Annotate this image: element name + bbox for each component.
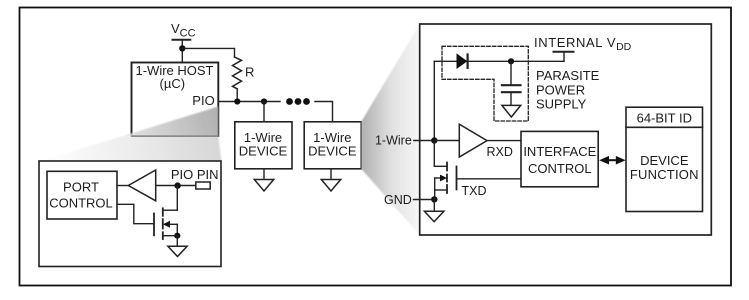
pin label PIO on host xyxy=(192,93,214,108)
device box D1 (1-Wire DEVICE) xyxy=(235,122,292,169)
zoom wedge from host box to port-control detail box xyxy=(39,107,222,162)
svg-text:1-Wire: 1-Wire xyxy=(313,130,351,145)
node junction VDD rail xyxy=(508,58,514,64)
node junction Q2 source xyxy=(174,233,180,239)
diode D3 (parasite power) xyxy=(457,54,468,68)
wire 1-Wire bus from PIO xyxy=(218,101,280,103)
node label GND xyxy=(384,193,412,207)
node junction device1 tap xyxy=(261,98,267,104)
transistor Q1 TXD pulldown xyxy=(434,141,456,200)
power symbol VCC xyxy=(171,21,196,40)
node junction resistor/bus xyxy=(234,98,240,104)
wire port control to receiver xyxy=(117,185,128,187)
op-amp buffer RXD xyxy=(459,124,487,157)
svg-text:PORT: PORT xyxy=(63,180,99,195)
wire 1-Wire to RXD buffer xyxy=(434,140,459,142)
wire bus segment to device2 xyxy=(315,102,333,122)
svg-text:INTERFACE: INTERFACE xyxy=(523,144,596,159)
value label R xyxy=(245,65,254,80)
port control block xyxy=(47,171,117,219)
host box label xyxy=(136,63,214,91)
resistor R xyxy=(233,57,242,89)
svg-text:DEVICE: DEVICE xyxy=(640,153,689,168)
pin label RXD xyxy=(487,145,513,159)
pin label TXD xyxy=(462,184,487,198)
wire VCC stub into host box xyxy=(181,40,183,62)
ground under device1 xyxy=(254,169,273,191)
transistor Q2 PIO pulldown xyxy=(154,186,177,239)
svg-text:SUPPLY: SUPPLY xyxy=(536,97,587,112)
svg-text:PIO PIN: PIO PIN xyxy=(171,167,219,182)
svg-text:RXD: RXD xyxy=(487,145,513,159)
op-amp buffer receiver (points left) xyxy=(128,170,155,201)
svg-text:1-Wire: 1-Wire xyxy=(244,130,282,145)
ground under device2 xyxy=(321,169,340,191)
wire tap down to device1 xyxy=(263,102,265,122)
wire 1-Wire vertical riser to diode xyxy=(433,61,435,140)
label PARASITE POWER SUPPLY xyxy=(536,68,600,112)
svg-text:CONTROL: CONTROL xyxy=(49,195,113,210)
svg-text:POWER: POWER xyxy=(536,82,585,97)
host box bottom edge under wedge xyxy=(132,135,218,137)
host box U1 (1-Wire HOST uC) xyxy=(132,63,219,137)
parasite power supply dashed outline xyxy=(442,46,528,121)
node junction at PIO pin xyxy=(174,182,180,188)
port-control detail box (left) xyxy=(39,161,221,267)
svg-text:PARASITE: PARASITE xyxy=(536,68,600,83)
node junction at VCC xyxy=(179,45,185,51)
svg-text:FUNCTION: FUNCTION xyxy=(630,167,699,182)
label PIO PIN xyxy=(171,167,219,182)
power symbol INTERNAL VDD xyxy=(534,35,632,61)
zoom wedge from device2 to device detail box xyxy=(361,24,420,235)
ground under capacitor xyxy=(502,105,521,117)
svg-text:CONTROL: CONTROL xyxy=(528,161,592,176)
svg-text:TXD: TXD xyxy=(462,184,487,198)
svg-text:DEVICE: DEVICE xyxy=(308,144,357,159)
ground in detail box xyxy=(168,236,187,257)
svg-text:DEVICE: DEVICE xyxy=(239,144,288,159)
ground symbol inside device xyxy=(424,200,444,222)
wire 1-Wire lead into box xyxy=(414,140,435,142)
node label 1-Wire xyxy=(375,133,412,147)
svg-text:PIO: PIO xyxy=(192,93,214,108)
device function box with 64-BIT ID xyxy=(626,107,703,211)
wire VCC to resistor top xyxy=(182,48,234,57)
svg-text:(µC): (µC) xyxy=(160,76,186,91)
device detail box (right) xyxy=(420,24,712,235)
wire GND lead into box xyxy=(414,199,435,201)
wire RXD to interface control xyxy=(487,140,521,142)
pin pad rectangle xyxy=(196,182,210,189)
wire diode rail xyxy=(434,60,564,62)
capacitor C1 xyxy=(502,61,521,105)
wire port control to gate of Q2 xyxy=(117,204,154,223)
wire resistor bottom to bus xyxy=(236,89,238,102)
node junction GND xyxy=(431,196,437,202)
device box D2 (1-Wire DEVICE) xyxy=(304,122,361,169)
wire receiver input from PIO pin xyxy=(156,185,196,187)
svg-text:GND: GND xyxy=(384,193,412,207)
svg-text:R: R xyxy=(245,65,254,80)
svg-text:1-Wire: 1-Wire xyxy=(375,133,412,147)
interface control box xyxy=(521,131,598,186)
node junction 1-Wire xyxy=(431,137,437,143)
wire TXD gate to interface control xyxy=(457,178,522,180)
bus continuation ellipsis dots xyxy=(286,98,310,105)
svg-text:64-BIT ID: 64-BIT ID xyxy=(637,111,692,126)
wire bidirectional arrow interface to device function xyxy=(599,156,625,165)
